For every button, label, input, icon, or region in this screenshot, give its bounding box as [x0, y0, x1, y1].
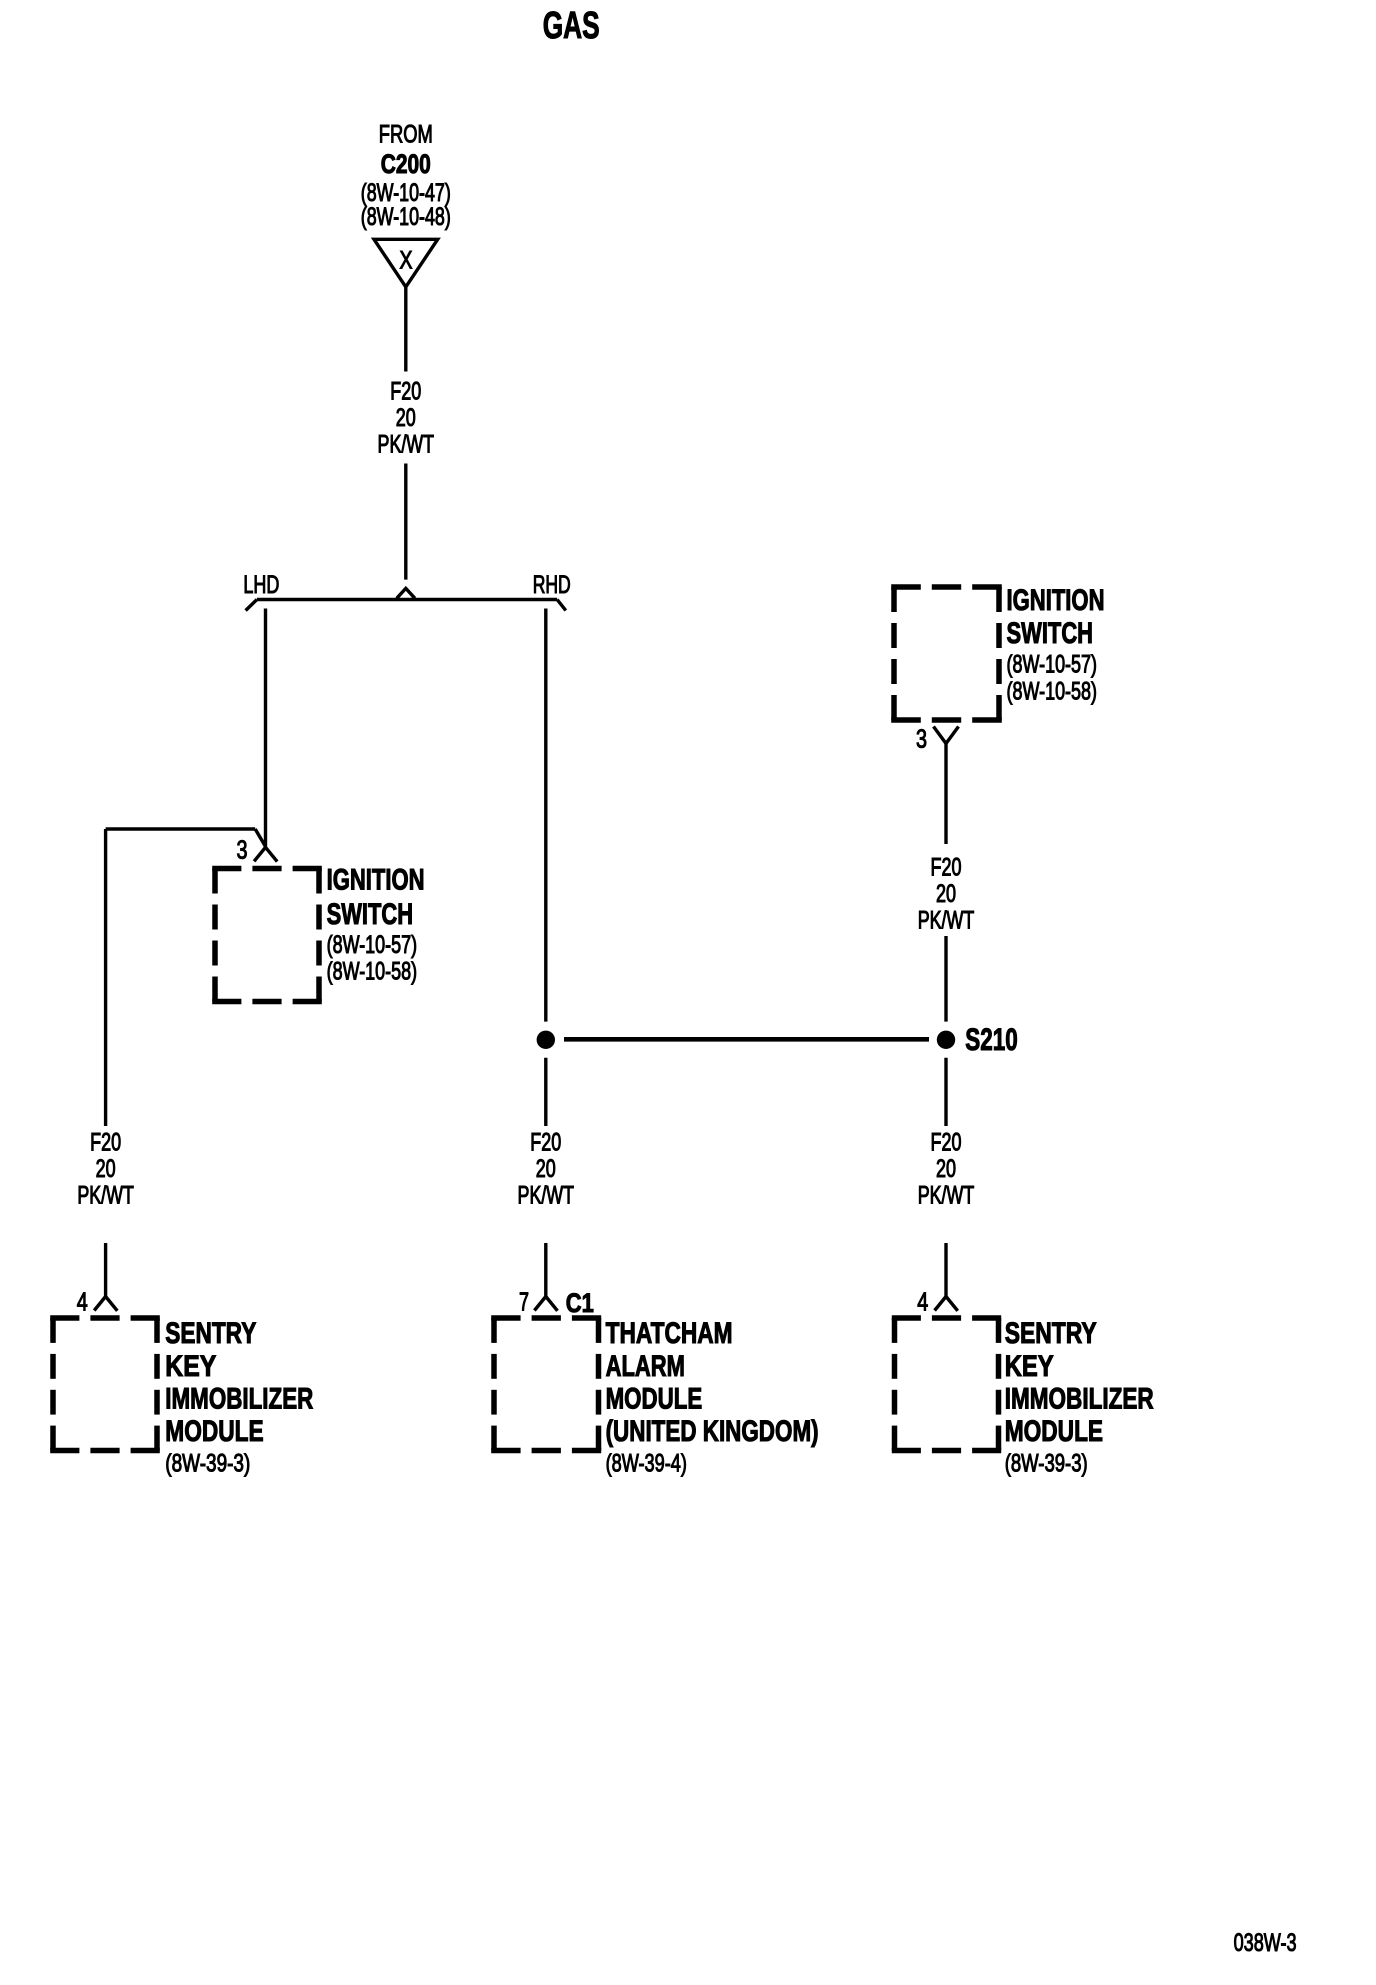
- svg-text:IGNITION: IGNITION: [327, 864, 425, 897]
- svg-text:SENTRY: SENTRY: [165, 1317, 256, 1350]
- svg-text:FROM: FROM: [379, 121, 433, 149]
- svg-text:20: 20: [96, 1155, 116, 1183]
- svg-text:C1: C1: [566, 1288, 594, 1318]
- svg-text:THATCHAM: THATCHAM: [606, 1317, 733, 1350]
- svg-text:MODULE: MODULE: [1005, 1415, 1103, 1448]
- svg-text:(8W-10-58): (8W-10-58): [327, 958, 418, 986]
- svg-text:(8W-10-57): (8W-10-57): [1007, 651, 1098, 679]
- svg-text:3: 3: [237, 835, 248, 865]
- svg-text:X: X: [400, 247, 413, 275]
- svg-text:4: 4: [77, 1287, 88, 1317]
- svg-text:IGNITION: IGNITION: [1007, 584, 1105, 617]
- svg-text:IMMOBILIZER: IMMOBILIZER: [165, 1383, 313, 1416]
- svg-text:GAS: GAS: [543, 5, 600, 47]
- svg-text:4: 4: [917, 1287, 928, 1317]
- svg-text:PK/WT: PK/WT: [77, 1182, 134, 1210]
- svg-text:F20: F20: [390, 378, 421, 406]
- svg-text:LHD: LHD: [243, 571, 279, 599]
- svg-text:C200: C200: [381, 149, 431, 179]
- svg-text:(UNITED KINGDOM): (UNITED KINGDOM): [606, 1415, 819, 1448]
- svg-text:PK/WT: PK/WT: [918, 1182, 975, 1210]
- svg-text:RHD: RHD: [533, 571, 571, 599]
- svg-text:PK/WT: PK/WT: [918, 907, 975, 935]
- svg-text:ALARM: ALARM: [606, 1350, 685, 1383]
- svg-text:(8W-10-58): (8W-10-58): [1007, 678, 1098, 706]
- svg-text:(8W-39-4): (8W-39-4): [606, 1450, 687, 1478]
- svg-text:MODULE: MODULE: [165, 1415, 263, 1448]
- svg-text:(8W-39-3): (8W-39-3): [165, 1450, 250, 1478]
- svg-text:20: 20: [936, 880, 956, 908]
- svg-text:IMMOBILIZER: IMMOBILIZER: [1005, 1383, 1154, 1416]
- svg-text:20: 20: [536, 1155, 556, 1183]
- svg-text:F20: F20: [931, 854, 962, 882]
- svg-text:PK/WT: PK/WT: [378, 431, 435, 459]
- svg-text:KEY: KEY: [1005, 1350, 1054, 1383]
- svg-text:7: 7: [519, 1287, 529, 1317]
- svg-text:038W-3: 038W-3: [1234, 1929, 1297, 1957]
- svg-text:F20: F20: [931, 1129, 962, 1157]
- svg-text:20: 20: [396, 404, 416, 432]
- svg-text:20: 20: [936, 1155, 956, 1183]
- svg-text:(8W-10-48): (8W-10-48): [361, 203, 451, 231]
- svg-text:SENTRY: SENTRY: [1005, 1317, 1097, 1350]
- svg-text:SWITCH: SWITCH: [327, 898, 414, 931]
- svg-text:(8W-10-57): (8W-10-57): [327, 931, 418, 959]
- svg-text:KEY: KEY: [165, 1350, 216, 1383]
- svg-text:MODULE: MODULE: [606, 1383, 703, 1416]
- svg-text:S210: S210: [965, 1021, 1018, 1057]
- svg-text:PK/WT: PK/WT: [518, 1182, 575, 1210]
- svg-text:F20: F20: [90, 1129, 121, 1157]
- svg-text:F20: F20: [530, 1129, 561, 1157]
- svg-text:3: 3: [916, 724, 927, 754]
- svg-text:SWITCH: SWITCH: [1007, 617, 1094, 650]
- svg-text:(8W-39-3): (8W-39-3): [1005, 1450, 1088, 1478]
